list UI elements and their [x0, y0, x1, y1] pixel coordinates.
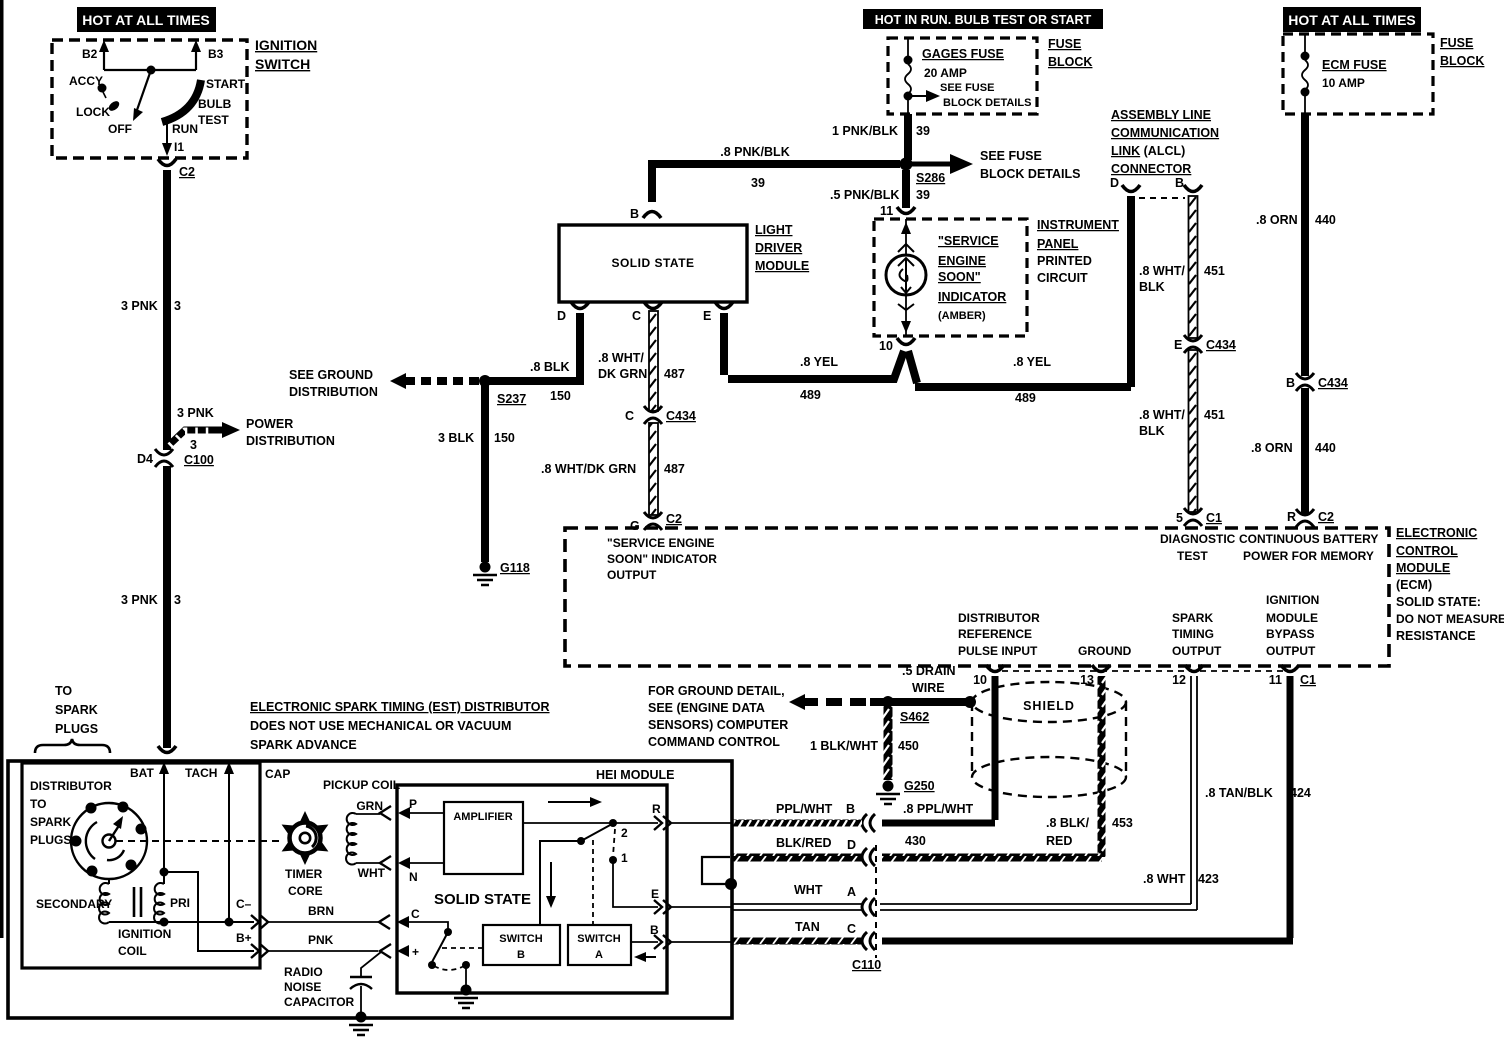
svg-text:DOES NOT USE MECHANICAL OR VAC: DOES NOT USE MECHANICAL OR VACUUM	[250, 719, 511, 733]
svg-text:39: 39	[916, 124, 930, 138]
svg-text:11: 11	[1269, 673, 1282, 687]
svg-text:ECM FUSE: ECM FUSE	[1322, 58, 1387, 72]
svg-text:SWITCH: SWITCH	[255, 56, 310, 72]
node switch common	[147, 66, 156, 75]
svg-text:BLOCK: BLOCK	[1440, 54, 1484, 68]
ground G250	[876, 781, 900, 805]
svg-text:20 AMP: 20 AMP	[924, 66, 967, 80]
svg-text:DO NOT MEASURE: DO NOT MEASURE	[1396, 612, 1504, 626]
wire WHT (HEI E to C110 A)	[732, 904, 862, 910]
pin P	[380, 806, 391, 820]
svg-text:C434: C434	[666, 409, 696, 423]
ECM dashed box	[565, 528, 1389, 666]
svg-text:START: START	[206, 77, 246, 91]
ECM pin 13	[1092, 665, 1110, 672]
coil core	[134, 887, 141, 917]
wire PNK	[268, 950, 378, 952]
ECM pin 12	[1185, 665, 1203, 672]
svg-text:.8 PPL/WHT: .8 PPL/WHT	[903, 802, 974, 816]
svg-text:SOLID STATE: SOLID STATE	[434, 891, 531, 908]
svg-text:BYPASS: BYPASS	[1266, 627, 1314, 641]
svg-text:CAPACITOR: CAPACITOR	[284, 995, 355, 1009]
svg-text:COMMAND CONTROL: COMMAND CONTROL	[648, 735, 780, 749]
svg-text:5: 5	[1176, 511, 1183, 525]
wire .8 ORN 440 (C434 to C2)	[1301, 388, 1309, 514]
connector C110 D	[862, 848, 875, 866]
svg-text:3 PNK: 3 PNK	[121, 299, 158, 313]
connector C1 (ECM pin 5)	[1184, 508, 1202, 526]
svg-text:D: D	[1110, 176, 1119, 190]
wire .8 WHT/DK GRN 487 (C434 to C2)	[649, 423, 658, 515]
svg-text:CONTINUOUS BATTERY: CONTINUOUS BATTERY	[1239, 532, 1378, 546]
svg-text:.8 YEL: .8 YEL	[1013, 355, 1051, 369]
svg-text:11: 11	[880, 204, 893, 218]
svg-text:BAT: BAT	[130, 766, 154, 780]
ignition switch dashed box	[52, 40, 247, 158]
svg-text:C2: C2	[179, 165, 195, 179]
svg-text:B: B	[630, 207, 639, 221]
node shield attach	[964, 696, 976, 708]
svg-text:WHT: WHT	[358, 866, 386, 880]
svg-text:C: C	[847, 922, 856, 936]
svg-text:B: B	[517, 949, 525, 961]
TACH riser	[228, 768, 230, 922]
svg-text:IGNITION: IGNITION	[1266, 593, 1319, 607]
connector C110 C	[862, 932, 875, 950]
svg-text:440: 440	[1315, 441, 1336, 455]
svg-text:NOISE: NOISE	[284, 980, 321, 994]
svg-text:S286: S286	[916, 171, 945, 185]
svg-text:D: D	[557, 309, 566, 323]
connector C434 (E)	[1184, 335, 1202, 353]
connector C2 (ECM pin G)	[644, 512, 662, 530]
wire .8 WHT 423 (pin 12 to C110 A)	[880, 676, 1197, 910]
ground G118	[473, 562, 497, 586]
svg-text:OFF: OFF	[108, 122, 132, 136]
svg-text:DISTRIBUTION: DISTRIBUTION	[289, 385, 378, 399]
rotor arm	[109, 824, 120, 841]
svg-text:E: E	[651, 887, 659, 901]
ECM fuse element	[1304, 34, 1306, 53]
svg-text:DRIVER: DRIVER	[755, 241, 802, 255]
wire BLK/RED (stub to C110 D)	[732, 854, 862, 862]
connector C-	[251, 915, 268, 929]
svg-text:LIGHT: LIGHT	[755, 223, 793, 237]
svg-text:BLK: BLK	[1139, 280, 1165, 294]
svg-text:(ECM): (ECM)	[1396, 578, 1432, 592]
wire PPL/WHT (HEI R to C110 B)	[732, 820, 862, 827]
svg-text:424: 424	[1290, 786, 1311, 800]
START arc contact	[162, 80, 201, 122]
pin E	[715, 302, 733, 309]
arrow top	[548, 801, 592, 803]
brace	[35, 739, 110, 753]
connector C110 dashed spine	[875, 845, 877, 958]
label box HOT AT ALL TIMES (left)	[77, 7, 216, 32]
svg-text:C2: C2	[666, 512, 682, 526]
svg-text:.8 PNK/BLK: .8 PNK/BLK	[720, 145, 789, 159]
svg-text:C: C	[411, 907, 420, 921]
connector B (light driver module)	[643, 212, 661, 219]
svg-text:PRI: PRI	[170, 896, 190, 910]
svg-text:PPL/WHT: PPL/WHT	[776, 802, 833, 816]
svg-text:DISTRIBUTION: DISTRIBUTION	[246, 434, 335, 448]
svg-text:TAN: TAN	[795, 920, 820, 934]
connector C2 (ECM pin R)	[1296, 509, 1314, 527]
svg-text:150: 150	[494, 431, 515, 445]
connector C1 dashed spine	[1002, 670, 1283, 672]
svg-text:C434: C434	[1318, 376, 1348, 390]
node tach tap	[225, 918, 234, 927]
wire 3 BLK 150 (S237 to G118)	[481, 385, 489, 562]
terminal B3 arrow	[195, 48, 197, 70]
svg-text:SEE GROUND: SEE GROUND	[289, 368, 373, 382]
switch blade pivot	[577, 837, 585, 845]
svg-text:SENSORS) COMPUTER: SENSORS) COMPUTER	[648, 718, 788, 732]
arrow into switch A	[642, 956, 656, 958]
svg-text:B2: B2	[82, 47, 98, 61]
svg-text:C–: C–	[236, 897, 252, 911]
terminal I1 arrow	[166, 122, 168, 144]
svg-text:P: P	[409, 797, 417, 811]
svg-text:SOON" INDICATOR: SOON" INDICATOR	[607, 552, 717, 566]
svg-text:S462: S462	[900, 710, 929, 724]
svg-text:MODULE: MODULE	[1266, 611, 1318, 625]
svg-text:SEE FUSE: SEE FUSE	[940, 82, 994, 94]
contact 1	[613, 829, 615, 856]
svg-text:OUTPUT: OUTPUT	[1266, 644, 1316, 658]
svg-text:.5 PNK/BLK: .5 PNK/BLK	[830, 188, 899, 202]
svg-text:C2: C2	[1318, 510, 1334, 524]
connector C110 B	[862, 814, 875, 832]
distributor outer box	[8, 761, 732, 1018]
svg-text:ASSEMBLY LINE: ASSEMBLY LINE	[1111, 108, 1211, 122]
label box HOT AT ALL TIMES (right)	[1283, 7, 1421, 32]
wire 3 PNK 3 (C100 to distributor BAT)	[163, 466, 171, 748]
svg-text:B: B	[1175, 176, 1184, 190]
svg-text:BRN: BRN	[308, 904, 334, 918]
splice S286	[900, 158, 913, 171]
svg-text:PLUGS: PLUGS	[30, 833, 71, 847]
svg-text:R: R	[1287, 510, 1296, 524]
svg-text:451: 451	[1204, 264, 1225, 278]
svg-text:SPARK: SPARK	[30, 815, 71, 829]
svg-text:SOON": SOON"	[938, 270, 981, 284]
wire .8 WHT/DK GRN 487 (C to C434)	[649, 311, 658, 411]
dashed link D-B	[1139, 197, 1185, 199]
pin D	[571, 302, 589, 309]
svg-text:.8 ORN: .8 ORN	[1256, 213, 1298, 227]
svg-text:(AMBER): (AMBER)	[938, 310, 986, 322]
connector pin 11 (instrument panel)	[897, 207, 915, 214]
svg-text:3: 3	[190, 438, 197, 452]
svg-text:10: 10	[879, 339, 893, 353]
svg-text:"SERVICE: "SERVICE	[938, 234, 999, 248]
wire .5 PNK/BLK 39	[902, 170, 910, 208]
wire B2-B3	[104, 69, 196, 71]
svg-text:CONTROL: CONTROL	[1396, 544, 1458, 558]
svg-text:.8 YEL: .8 YEL	[800, 355, 838, 369]
svg-text:PANEL: PANEL	[1037, 237, 1079, 251]
svg-text:SPARK: SPARK	[1172, 611, 1213, 625]
svg-text:SWITCH: SWITCH	[577, 933, 620, 945]
svg-text:TO: TO	[30, 797, 46, 811]
svg-text:CORE: CORE	[288, 884, 323, 898]
svg-text:AMPLIFIER: AMPLIFIER	[453, 811, 512, 823]
connector pin 10 (indicator)	[897, 338, 915, 345]
svg-text:N: N	[409, 870, 418, 884]
switch blade to OFF	[137, 70, 151, 110]
svg-text:CAP: CAP	[265, 767, 290, 781]
svg-text:BULB: BULB	[198, 97, 232, 111]
svg-text:150: 150	[550, 389, 571, 403]
svg-text:12: 12	[1172, 673, 1186, 687]
arrow see fuse block details (inside fuse box)	[908, 95, 928, 97]
svg-text:423: 423	[1198, 872, 1219, 886]
wire ALCL D down to .8 YEL	[1127, 196, 1135, 387]
svg-text:440: 440	[1315, 213, 1336, 227]
svg-text:LINK (ALCL): LINK (ALCL)	[1111, 144, 1185, 158]
wire .8 YEL 489 (indicator to ALCL D)	[908, 351, 1131, 387]
stub: distributor housing ground for BLK/RED	[702, 857, 730, 884]
connector C100 (D4)	[155, 449, 173, 467]
svg-text:SOLID STATE: SOLID STATE	[611, 256, 694, 270]
svg-text:C100: C100	[184, 453, 214, 467]
svg-text:WHT: WHT	[794, 883, 823, 897]
wire .8 YEL 489 (E to indicator)	[724, 313, 904, 379]
svg-text:3: 3	[174, 593, 181, 607]
svg-text:1 BLK/WHT: 1 BLK/WHT	[810, 739, 878, 753]
svg-text:C1: C1	[1300, 673, 1316, 687]
svg-text:C434: C434	[1206, 338, 1236, 352]
svg-text:TACH: TACH	[185, 766, 217, 780]
svg-text:.8 WHT/: .8 WHT/	[1139, 408, 1185, 422]
svg-text:RADIO: RADIO	[284, 965, 323, 979]
svg-text:GAGES FUSE: GAGES FUSE	[922, 47, 1004, 61]
svg-text:487: 487	[664, 462, 685, 476]
svg-text:HEI MODULE: HEI MODULE	[596, 768, 674, 782]
ECM pin 10	[986, 665, 1004, 672]
svg-text:SWITCH: SWITCH	[499, 933, 542, 945]
svg-text:10 AMP: 10 AMP	[1322, 76, 1365, 90]
svg-text:PICKUP COIL: PICKUP COIL	[323, 778, 400, 792]
svg-text:.8 WHT: .8 WHT	[1143, 872, 1186, 886]
wire TAN (HEI B out to C110 C)	[732, 938, 862, 945]
svg-text:A: A	[847, 885, 856, 899]
dashed line to switch A	[592, 840, 594, 925]
svg-text:POWER FOR MEMORY: POWER FOR MEMORY	[1243, 549, 1374, 563]
fuse block dashed box (ECM fuse)	[1283, 34, 1433, 114]
svg-text:MODULE: MODULE	[1396, 561, 1450, 575]
svg-text:A: A	[595, 949, 603, 961]
op-amp / module box U-light driver	[559, 225, 747, 302]
svg-text:3 BLK: 3 BLK	[438, 431, 474, 445]
timer core star	[282, 811, 329, 865]
wire lead: see ground distribution	[404, 377, 479, 385]
wire .8 TAN/BLK 424 (pin 11 to C110 C)	[882, 676, 1293, 941]
svg-text:C: C	[625, 409, 634, 423]
svg-text:REFERENCE: REFERENCE	[958, 627, 1032, 641]
svg-text:PULSE INPUT: PULSE INPUT	[958, 644, 1038, 658]
svg-text:B: B	[1286, 376, 1295, 390]
node coil primary bottom	[160, 918, 169, 927]
svg-text:"SERVICE ENGINE: "SERVICE ENGINE	[607, 536, 715, 550]
svg-text:489: 489	[1015, 391, 1036, 405]
wire .8 WHT/BLK 451 (C434 to C1)	[1189, 350, 1198, 512]
svg-text:DK GRN: DK GRN	[598, 367, 647, 381]
svg-text:SHIELD: SHIELD	[1023, 699, 1075, 713]
wire coil common	[109, 921, 254, 923]
svg-text:POWER: POWER	[246, 417, 293, 431]
arrow see fuse block details (right of S286)	[912, 162, 952, 167]
svg-text:B: B	[846, 802, 855, 816]
pin N	[380, 856, 391, 870]
wire to R out	[616, 822, 658, 824]
svg-text:3 PNK: 3 PNK	[177, 406, 214, 420]
ALCL pin B	[1184, 185, 1202, 192]
svg-text:3: 3	[174, 299, 181, 313]
wire .8 BLK/RED 453 (pin 13 through shield)	[1098, 676, 1106, 857]
ALCL pin D	[1122, 185, 1140, 192]
svg-text:S237: S237	[497, 392, 526, 406]
svg-text:C: C	[632, 309, 641, 323]
label box HOT IN RUN BULB TEST OR START	[863, 9, 1103, 29]
wire BRN	[268, 921, 380, 923]
down arrow	[550, 862, 552, 898]
svg-text:39: 39	[751, 176, 765, 190]
svg-text:FOR GROUND DETAIL,: FOR GROUND DETAIL,	[648, 684, 785, 698]
svg-text:CONNECTOR: CONNECTOR	[1111, 162, 1191, 176]
svg-text:D: D	[847, 838, 856, 852]
svg-text:.5 DRAIN: .5 DRAIN	[902, 664, 955, 678]
svg-text:IGNITION: IGNITION	[118, 927, 171, 941]
svg-text:1 PNK/BLK: 1 PNK/BLK	[832, 124, 898, 138]
svg-text:RESISTANCE: RESISTANCE	[1396, 629, 1476, 643]
svg-text:.8 BLK: .8 BLK	[530, 360, 570, 374]
wire .8 PPL/WHT 430 (pin 10 to HEI B)	[882, 676, 995, 823]
svg-text:GRN: GRN	[356, 799, 383, 813]
svg-text:BLOCK DETAILS: BLOCK DETAILS	[980, 167, 1080, 181]
svg-text:BLOCK DETAILS: BLOCK DETAILS	[943, 97, 1031, 109]
svg-text:INSTRUMENT: INSTRUMENT	[1037, 218, 1119, 232]
svg-text:.8 WHT/DK GRN: .8 WHT/DK GRN	[541, 462, 636, 476]
svg-text:WIRE: WIRE	[912, 681, 945, 695]
svg-text:PNK: PNK	[308, 933, 334, 947]
svg-text:G118: G118	[500, 561, 530, 575]
svg-text:39: 39	[916, 188, 930, 202]
svg-text:+: +	[412, 945, 419, 959]
indicator lamp L1	[905, 219, 907, 336]
svg-text:GROUND: GROUND	[1078, 644, 1132, 658]
wire .8 ORN 440 (fuse to C434)	[1301, 114, 1309, 376]
svg-text:DIAGNOSTIC: DIAGNOSTIC	[1160, 532, 1236, 546]
wire 3 PNK 3 (ignition switch to C100)	[163, 170, 171, 450]
connector C434 (C)	[644, 406, 662, 424]
svg-text:SPARK: SPARK	[55, 703, 98, 717]
distributor cap inner box	[22, 763, 260, 968]
svg-text:LOCK: LOCK	[76, 105, 110, 119]
svg-text:E: E	[1174, 338, 1182, 352]
svg-text:ACCY: ACCY	[69, 74, 103, 88]
svg-text:I1: I1	[174, 140, 184, 154]
wire 1 to E out	[613, 862, 658, 907]
wire branch 3 PNK to power distribution	[167, 430, 228, 447]
connector C434 (B)	[1296, 373, 1314, 391]
svg-text:.8 TAN/BLK: .8 TAN/BLK	[1205, 786, 1273, 800]
svg-text:OUTPUT: OUTPUT	[1172, 644, 1222, 658]
svg-text:B3: B3	[208, 47, 224, 61]
svg-text:ENGINE: ENGINE	[938, 254, 986, 268]
svg-text:OUTPUT: OUTPUT	[607, 568, 657, 582]
svg-text:C1: C1	[1206, 511, 1222, 525]
svg-text:TEST: TEST	[198, 113, 229, 127]
svg-text:ELECTRONIC SPARK TIMING (EST): ELECTRONIC SPARK TIMING (EST) DISTRIBUTO…	[250, 700, 550, 714]
svg-text:D4: D4	[137, 452, 153, 466]
svg-text:.8 WHT/: .8 WHT/	[598, 351, 644, 365]
C input switch	[409, 922, 448, 929]
svg-text:.8 WHT/: .8 WHT/	[1139, 264, 1185, 278]
wire .8 WHT/BLK 451 (ALCL B to C434 E)	[1189, 196, 1198, 338]
switch A box	[568, 925, 631, 965]
amplifier output to switch	[523, 822, 610, 824]
svg-text:TO: TO	[55, 684, 72, 698]
svg-text:E: E	[703, 309, 711, 323]
wire .8 BLK 150 (D to S237)	[485, 313, 584, 381]
svg-text:10: 10	[973, 673, 987, 687]
wire 1 BLK/WHT 450	[884, 706, 893, 780]
wire 1 PNK/BLK 39	[904, 114, 912, 160]
svg-text:CIRCUIT: CIRCUIT	[1037, 271, 1088, 285]
fuse block dashed box (gages fuse)	[888, 38, 1037, 114]
svg-text:TIMER: TIMER	[285, 867, 323, 881]
svg-text:BLK/RED: BLK/RED	[776, 836, 832, 850]
amplifier U-amp	[444, 802, 523, 874]
splice S237	[479, 375, 491, 387]
svg-text:2: 2	[621, 826, 628, 840]
svg-text:DISTRIBUTOR: DISTRIBUTOR	[958, 611, 1040, 625]
svg-text:C110: C110	[852, 958, 881, 972]
connector C2 (ignition switch)	[158, 159, 176, 166]
svg-text:HOT AT ALL TIMES: HOT AT ALL TIMES	[1288, 12, 1416, 28]
switch B box	[483, 925, 560, 965]
svg-text:SEE (ENGINE DATA: SEE (ENGINE DATA	[648, 701, 765, 715]
svg-text:HOT AT ALL TIMES: HOT AT ALL TIMES	[82, 12, 210, 28]
svg-text:450: 450	[898, 739, 919, 753]
radio noise capacitor C-radio	[361, 952, 381, 977]
svg-text:.8 ORN: .8 ORN	[1251, 441, 1293, 455]
svg-text:IGNITION: IGNITION	[255, 37, 317, 53]
splice S462	[882, 696, 894, 708]
svg-text:B+: B+	[236, 931, 252, 945]
svg-text:R: R	[652, 802, 661, 816]
svg-text:451: 451	[1204, 408, 1225, 422]
svg-text:DISTRIBUTOR: DISTRIBUTOR	[30, 779, 112, 793]
svg-text:HOT IN RUN. BULB TEST OR START: HOT IN RUN. BULB TEST OR START	[875, 13, 1092, 27]
dashed shaft to timer core	[116, 840, 280, 842]
svg-text:FUSE: FUSE	[1440, 36, 1473, 50]
rotor / cap circle	[71, 803, 147, 879]
svg-text:COIL: COIL	[118, 944, 147, 958]
shield cylinder	[972, 682, 1126, 722]
switch A to B out	[631, 941, 658, 943]
svg-text:SOLID STATE:: SOLID STATE:	[1396, 595, 1481, 609]
wire .8 PNK/BLK 39	[652, 164, 900, 202]
indicator dashed box	[874, 219, 1027, 336]
svg-text:ELECTRONIC: ELECTRONIC	[1396, 526, 1477, 540]
svg-text:RED: RED	[1046, 834, 1072, 848]
svg-text:3 PNK: 3 PNK	[121, 593, 158, 607]
BAT riser	[163, 768, 165, 872]
